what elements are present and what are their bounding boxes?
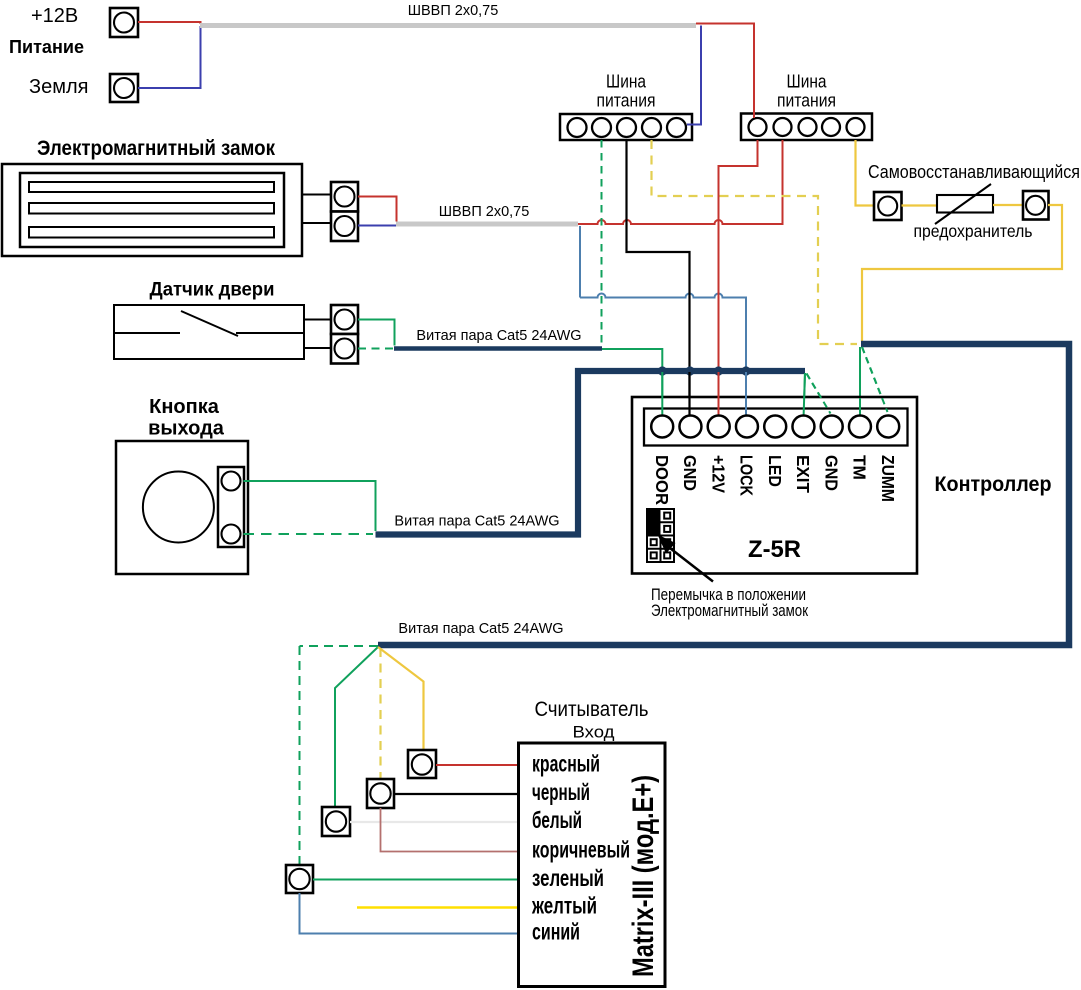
wire black to reader — [394, 793, 519, 795]
terminal sensor top — [331, 305, 358, 334]
jumper arrow — [658, 535, 714, 582]
svg-text:предохранитель: предохранитель — [914, 221, 1033, 241]
pin 8 TM — [849, 416, 871, 438]
fuse F1 body — [937, 195, 993, 213]
svg-text:Вход: Вход — [573, 723, 615, 742]
wire black into GND pin — [688, 372, 690, 416]
wire blue lock to cable — [358, 225, 397, 227]
pin 1 DOOR — [651, 416, 673, 438]
wire green reader branch — [335, 647, 378, 807]
svg-text:черный: черный — [532, 779, 590, 805]
svg-text:питания: питания — [777, 90, 836, 111]
terminal +12V — [110, 8, 138, 37]
svg-text:LED: LED — [765, 455, 785, 487]
wire lock stub bottom — [302, 222, 331, 224]
terminal reader white — [322, 807, 350, 836]
wire red cable to bus2 — [696, 24, 754, 119]
wire red +12V to cable — [138, 22, 201, 24]
svg-text:TM: TM — [850, 455, 870, 480]
wire yellow fuse return to controller corner — [862, 205, 1062, 342]
wire blue ground to cable — [138, 26, 201, 88]
terminal Земля — [110, 74, 138, 102]
wire green dashed exit button to cable — [244, 533, 374, 535]
junction dot LOCK — [741, 366, 750, 375]
wire blue cable to bus1 — [687, 26, 701, 125]
wire green dashed bus1 to door cable — [601, 140, 603, 346]
wire green dashed into GND2 pin — [807, 374, 831, 414]
power bus strip 1 — [560, 114, 692, 140]
wire red into +12V pin — [718, 372, 720, 416]
svg-text:Контроллер: Контроллер — [935, 472, 1052, 496]
svg-text:выхода: выхода — [148, 418, 225, 440]
wire green into TM pin — [859, 398, 861, 416]
svg-text:Витая пара Cat5 24AWG: Витая пара Cat5 24AWG — [394, 514, 559, 530]
svg-text:EXIT: EXIT — [793, 455, 813, 493]
wire blue into LOCK pin — [745, 372, 747, 416]
terminal lock - — [331, 212, 358, 242]
svg-text:зеленый: зеленый — [532, 865, 604, 891]
pin 6 EXIT — [792, 416, 814, 438]
wire red to reader — [436, 764, 519, 766]
wire green cable to EXIT pin — [804, 373, 805, 416]
wire yellow dashed reader branch — [379, 648, 381, 779]
junction dot DOOR — [658, 366, 667, 375]
wire yellow reader branch — [378, 647, 424, 750]
svg-text:LOCK: LOCK — [737, 455, 757, 496]
svg-text:GND: GND — [821, 455, 841, 491]
wire green dashed reader branch horizontal — [300, 645, 379, 647]
wire green into EXIT pin — [804, 373, 805, 416]
wire sensor stub top — [304, 319, 331, 321]
junction dot +12V — [714, 366, 723, 375]
terminal reader green — [286, 865, 313, 893]
wire yellow fuse right — [993, 204, 1023, 206]
svg-text:Электромагнитный замок: Электромагнитный замок — [651, 602, 809, 620]
wire green corner to TM pin — [859, 347, 861, 416]
wire sensor stub bottom — [304, 347, 331, 349]
fuse F1 diagonal — [935, 184, 991, 224]
wire yellow dashed bus1 to controller corner — [652, 140, 858, 344]
svg-text:+12В: +12В — [31, 5, 78, 27]
wire blue to LOCK pin — [580, 294, 746, 417]
jumper block J1 — [646, 508, 674, 562]
svg-text:желтый: желтый — [531, 893, 597, 919]
pin 5 LED — [764, 416, 786, 438]
wire green cable to DOOR pin — [602, 349, 662, 416]
terminal reader black — [367, 779, 394, 808]
wire red bus2 to +12V pin — [719, 140, 758, 416]
wire brown to reader — [381, 808, 519, 852]
svg-text:Шина: Шина — [787, 71, 828, 92]
svg-text:+12V: +12V — [708, 455, 728, 493]
wire yellow bus2 to fuse — [856, 140, 875, 206]
svg-text:ШВВП 2х0,75: ШВВП 2х0,75 — [408, 3, 499, 19]
wire green sensor to cable — [358, 320, 395, 346]
svg-text:белый: белый — [532, 807, 582, 833]
svg-text:Витая пара Cat5 24AWG: Витая пара Cat5 24AWG — [416, 328, 581, 344]
terminal fuse left — [874, 192, 902, 220]
power bus strip 2 — [741, 114, 872, 141]
reader Matrix-III box — [519, 743, 666, 987]
wire green exit button to cable — [244, 481, 376, 531]
svg-text:Шина: Шина — [606, 71, 647, 92]
svg-text:DOOR: DOOR — [652, 455, 672, 505]
wire lock stub top — [302, 194, 331, 196]
junction dot GND — [685, 366, 694, 375]
door sensor S1 — [114, 305, 304, 359]
pin 9 ZUMM — [877, 416, 899, 438]
electromagnetic lock body — [2, 164, 302, 256]
terminal reader red — [408, 750, 436, 778]
svg-text:коричневый: коричневый — [532, 837, 630, 863]
wire red lock line to bus2 — [578, 140, 783, 224]
svg-text:Matrix-III (мод.Е+): Matrix-III (мод.Е+) — [627, 775, 660, 977]
svg-text:Земля: Земля — [29, 76, 88, 98]
svg-text:синий: синий — [532, 919, 580, 945]
exit button SB1 — [116, 441, 248, 574]
terminal lock + — [331, 182, 358, 212]
svg-text:питания: питания — [597, 90, 656, 111]
svg-text:Питание: Питание — [9, 36, 84, 57]
cable Cat5 reader navy frame — [378, 344, 1069, 645]
pin 2 GND — [679, 416, 701, 438]
wire green dashed reader branch vertical — [299, 646, 301, 865]
svg-text:красный: красный — [532, 750, 600, 776]
wire yellow fuse left — [902, 204, 938, 206]
terminal fuse right — [1023, 191, 1049, 220]
wire green dashed cable to GND2 pin — [807, 374, 831, 414]
wire green dashed corner to ZUMM pin — [862, 347, 888, 412]
wire green dashed into ZUMM pin — [862, 347, 888, 412]
svg-text:Электромагнитный замок: Электромагнитный замок — [37, 137, 275, 160]
svg-text:GND: GND — [680, 455, 700, 491]
cable Cat5 door sensor navy — [394, 346, 602, 351]
wire green dashed sensor to cable — [358, 348, 393, 350]
wire white to reader — [350, 821, 519, 823]
svg-text:Z-5R: Z-5R — [748, 536, 801, 563]
svg-text:Самовосстанавливающийся: Самовосстанавливающийся — [868, 162, 1080, 182]
svg-text:ZUMM: ZUMM — [878, 455, 898, 502]
controller U1 Z-5R box — [632, 397, 917, 574]
wire black bus1 to GND pin — [627, 140, 690, 416]
wire blue lock drop — [579, 226, 581, 298]
svg-text:Витая пара Cat5 24AWG: Витая пара Cat5 24AWG — [398, 621, 563, 637]
wire blue to reader — [300, 893, 519, 934]
svg-text:Считыватель: Считыватель — [535, 698, 649, 721]
terminal sensor bottom — [331, 334, 358, 364]
svg-text:ШВВП 2х0,75: ШВВП 2х0,75 — [439, 204, 530, 220]
pin 4 LOCK — [736, 416, 758, 438]
svg-text:Кнопка: Кнопка — [149, 396, 220, 418]
pin 3 +12V — [708, 416, 730, 438]
controller terminal strip — [644, 409, 908, 446]
svg-text:Датчик двери: Датчик двери — [150, 280, 275, 301]
cable ШВВП lock grey — [396, 222, 578, 227]
cable ШВВП power grey — [200, 23, 696, 28]
pin 7 GND — [821, 416, 843, 438]
wire yellow to reader — [357, 906, 519, 909]
wire green into DOOR pin — [661, 372, 663, 416]
cable Cat5 exit button navy — [376, 371, 806, 535]
wire red lock to cable — [358, 197, 397, 222]
wire green to reader — [313, 879, 519, 881]
